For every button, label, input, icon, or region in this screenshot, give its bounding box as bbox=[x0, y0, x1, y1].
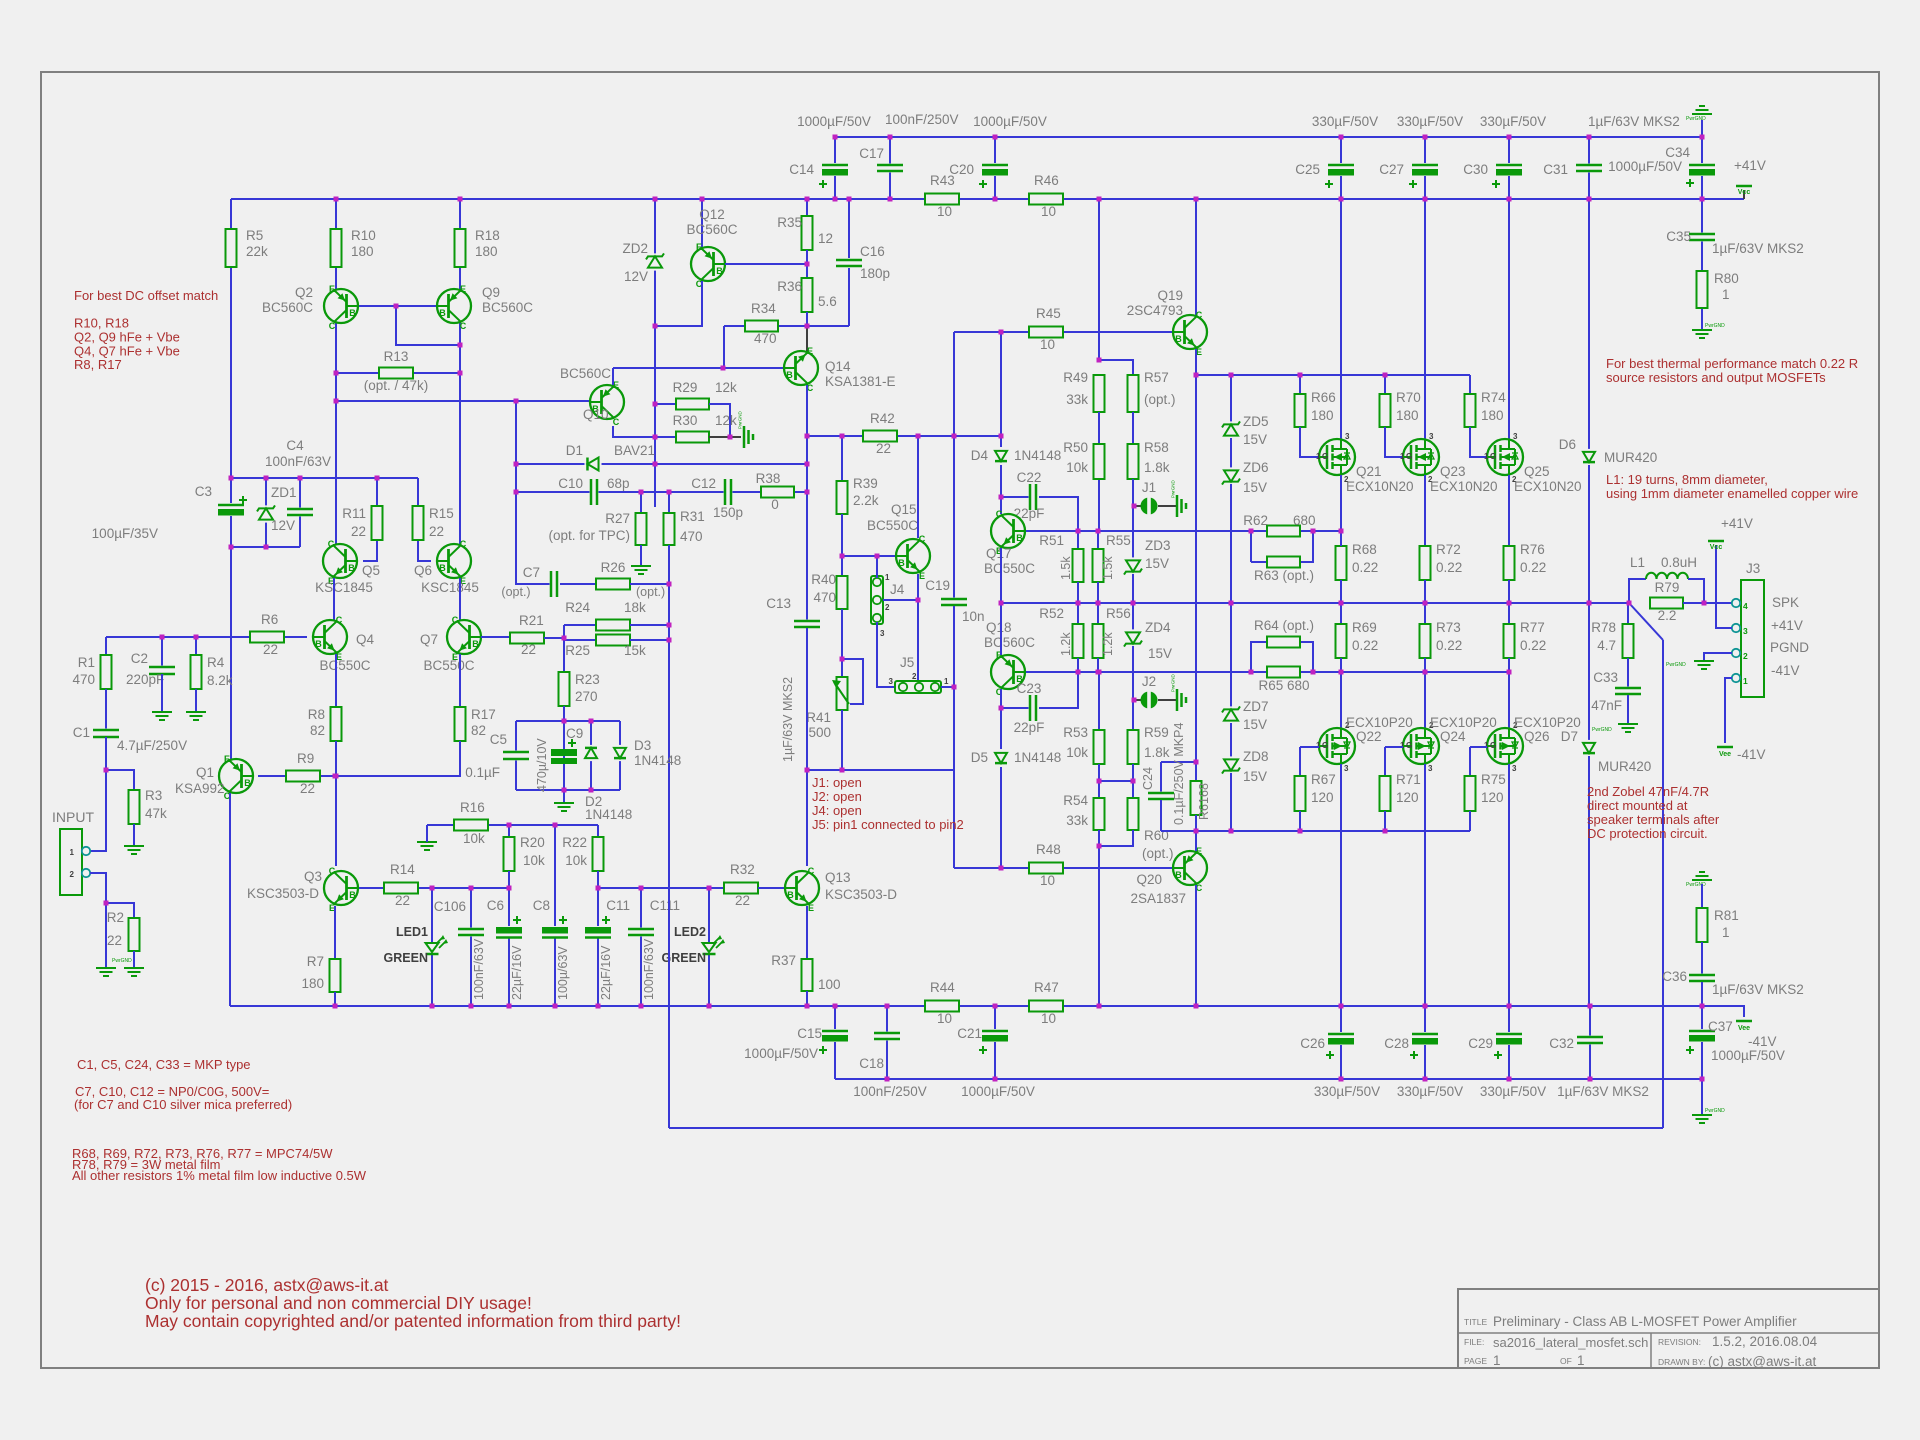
capacitor C16 bbox=[836, 259, 862, 268]
svg-text:470: 470 bbox=[813, 590, 836, 605]
junction at 471,1006 bbox=[469, 1004, 474, 1009]
zener ZD2 bbox=[646, 253, 664, 270]
wire Q21 source link bbox=[1340, 475, 1342, 546]
junction at 1509,1006 bbox=[1507, 1004, 1512, 1009]
svg-text:B: B bbox=[439, 308, 446, 318]
junction at 1341,1079 bbox=[1339, 1077, 1344, 1082]
wire R74 to gate bbox=[1470, 427, 1487, 457]
svg-text:1N4148: 1N4148 bbox=[634, 753, 681, 768]
wire Q7.E to R17 bbox=[459, 654, 461, 707]
svg-text:68: 68 bbox=[1197, 783, 1211, 797]
resistor R68 bbox=[1336, 546, 1347, 580]
capacitor C5 bbox=[503, 751, 529, 761]
wire Q14.E lead bbox=[806, 326, 808, 351]
svg-text:PwrGND: PwrGND bbox=[1705, 1108, 1725, 1114]
junction at 564,721 bbox=[562, 719, 567, 724]
wire R78 leads bbox=[1627, 603, 1629, 624]
title block bbox=[1458, 1289, 1879, 1368]
wire R34 line bbox=[724, 325, 745, 327]
resistor R25 bbox=[564, 639, 596, 641]
svg-text:4: 4 bbox=[1743, 601, 1748, 611]
svg-text:BC560C: BC560C bbox=[482, 300, 533, 315]
junction at 1425,1079 bbox=[1423, 1077, 1428, 1082]
svg-text:ZD2: ZD2 bbox=[622, 241, 648, 256]
wire J3 pin1 -41V bbox=[1725, 678, 1732, 743]
junction at 1098,531 bbox=[1096, 529, 1101, 534]
svg-text:C33: C33 bbox=[1593, 670, 1618, 685]
wire R56 leads bbox=[1097, 603, 1099, 624]
junction at 1589,137 bbox=[1587, 135, 1592, 140]
svg-text:R21: R21 bbox=[519, 613, 544, 628]
junction at 1231,375 bbox=[1229, 373, 1234, 378]
wire R42 line bbox=[807, 435, 863, 437]
wire Q10.E corner bbox=[612, 368, 614, 385]
junction at 1425,1006 bbox=[1423, 1004, 1428, 1009]
svg-text:1.2k: 1.2k bbox=[1101, 632, 1115, 656]
junction at 555,825 bbox=[553, 823, 558, 828]
junction at 669,584 bbox=[667, 582, 672, 587]
capacitor C26 bbox=[1328, 1032, 1354, 1045]
ground below input pin2 bbox=[96, 968, 116, 976]
svg-text:J4: open: J4: open bbox=[812, 803, 862, 818]
junction at 807,264 bbox=[805, 262, 810, 267]
junction at 641,888 bbox=[639, 886, 644, 891]
wire R53/R59 bottom link bbox=[1098, 764, 1100, 781]
svg-text:DRAWN BY:: DRAWN BY: bbox=[1658, 1357, 1705, 1367]
svg-text:Q15: Q15 bbox=[891, 502, 917, 517]
resistor R67 bbox=[1295, 776, 1306, 811]
svg-text:C: C bbox=[452, 615, 459, 625]
svg-text:ZD3: ZD3 bbox=[1145, 538, 1171, 553]
wire R51 leads bbox=[1077, 531, 1079, 549]
svg-text:KSC3503-D: KSC3503-D bbox=[247, 886, 319, 901]
svg-text:0.22: 0.22 bbox=[1436, 560, 1462, 575]
svg-text:+41V: +41V bbox=[1771, 618, 1803, 633]
wire R76 to output rail bbox=[1508, 580, 1510, 603]
svg-text:1000µF/50V: 1000µF/50V bbox=[744, 1046, 818, 1061]
svg-text:E: E bbox=[329, 284, 335, 294]
junction at 1509,1079 bbox=[1507, 1077, 1512, 1082]
svg-text:B: B bbox=[315, 639, 322, 649]
svg-text:MUR420: MUR420 bbox=[1598, 759, 1651, 774]
wire R27 leads bbox=[640, 492, 642, 513]
svg-text:R16: R16 bbox=[460, 800, 485, 815]
svg-text:4.7µF/250V: 4.7µF/250V bbox=[117, 738, 187, 753]
junction at 1589,199 bbox=[1587, 197, 1592, 202]
wire R17 down bbox=[335, 741, 460, 776]
junction at 300,478 bbox=[298, 476, 303, 481]
svg-text:D5: D5 bbox=[971, 750, 988, 765]
svg-text:FILE:: FILE: bbox=[1464, 1337, 1484, 1347]
diode D6 bbox=[1582, 449, 1596, 465]
resistor R38 bbox=[761, 487, 794, 498]
wire J2 to R59 bbox=[1132, 700, 1134, 730]
svg-text:L1: 19 turns, 8mm diameter,: L1: 19 turns, 8mm diameter, bbox=[1606, 472, 1768, 487]
wire Q15.C lead bbox=[917, 436, 919, 538]
junction at 1589,603 bbox=[1587, 601, 1592, 606]
wire R54 to rail bbox=[1098, 846, 1100, 1006]
wire Q15.E / J5 pin2 bbox=[917, 600, 919, 681]
svg-text:L1: L1 bbox=[1630, 555, 1645, 570]
junction at 1134,700 bbox=[1132, 698, 1137, 703]
wire R35-R36 bbox=[806, 250, 808, 278]
wire Q1.C column bbox=[229, 793, 231, 1006]
wire R58 to J1 bbox=[1132, 479, 1134, 506]
svg-text:22: 22 bbox=[521, 642, 536, 657]
svg-text:C13: C13 bbox=[766, 596, 791, 611]
svg-text:C3: C3 bbox=[195, 484, 212, 499]
svg-text:R36: R36 bbox=[777, 279, 802, 294]
resistor R53 bbox=[1098, 672, 1100, 730]
wire R21 line bbox=[481, 637, 510, 638]
capacitor C1 bbox=[93, 729, 119, 739]
svg-text:Q25: Q25 bbox=[1524, 464, 1550, 479]
junction at 377,478 bbox=[375, 476, 380, 481]
wire J1 to ZD3 bbox=[1132, 506, 1134, 558]
svg-text:10: 10 bbox=[937, 204, 952, 219]
svg-text:Q1: Q1 bbox=[196, 765, 214, 780]
capacitor C35 bbox=[1689, 233, 1715, 242]
wire D1 line bbox=[516, 463, 806, 465]
svg-text:R79: R79 bbox=[1655, 580, 1680, 595]
wire R41 wiper loop bbox=[842, 659, 863, 704]
svg-text:PGND: PGND bbox=[1770, 640, 1809, 655]
wire R65 line bbox=[1251, 671, 1267, 673]
resistor R31 bbox=[664, 513, 675, 545]
junction at 516,401 bbox=[514, 399, 519, 404]
svg-text:R3: R3 bbox=[145, 788, 162, 803]
svg-text:10: 10 bbox=[1040, 873, 1055, 888]
wire +41V rail bbox=[231, 198, 925, 200]
svg-text:C111: C111 bbox=[650, 898, 680, 913]
junction at 1001,708 bbox=[999, 706, 1004, 711]
svg-text:J5: J5 bbox=[900, 655, 914, 670]
wire C33 ground lead bbox=[1627, 695, 1629, 724]
svg-text:C11: C11 bbox=[606, 898, 630, 913]
svg-text:1000µF/50V: 1000µF/50V bbox=[1608, 159, 1682, 174]
wire R64 links bbox=[1251, 642, 1267, 672]
svg-text:G: G bbox=[1322, 741, 1328, 750]
junction at 1099,360 bbox=[1097, 358, 1102, 363]
svg-text:1: 1 bbox=[1484, 741, 1489, 750]
svg-text:22: 22 bbox=[429, 524, 444, 539]
svg-text:120: 120 bbox=[1481, 790, 1504, 805]
svg-text:1: 1 bbox=[1484, 452, 1489, 461]
wire lower gate rail bbox=[1161, 830, 1470, 832]
resistor R5 bbox=[226, 229, 237, 267]
svg-text:10: 10 bbox=[1041, 204, 1056, 219]
wire bottom cap bus bbox=[835, 1078, 1702, 1080]
wire D6 column bbox=[1588, 199, 1590, 449]
wire R70 to gate bbox=[1385, 427, 1403, 457]
junction at 106,903 bbox=[104, 901, 109, 906]
wire Q2-Q9 base link bbox=[358, 305, 437, 307]
svg-text:R30: R30 bbox=[673, 413, 698, 428]
svg-text:10k: 10k bbox=[523, 853, 545, 868]
svg-text:ECX10N20: ECX10N20 bbox=[1430, 479, 1498, 494]
wire ZD7 leads bbox=[1230, 603, 1232, 707]
wire LED1 leads bbox=[431, 888, 433, 943]
wire R54/R60 bottom link bbox=[1099, 830, 1133, 846]
ground PwrGND bottom right bbox=[1692, 1115, 1712, 1123]
svg-text:ECX10N20: ECX10N20 bbox=[1514, 479, 1582, 494]
svg-text:REVISION:: REVISION: bbox=[1658, 1337, 1701, 1347]
svg-text:68p: 68p bbox=[607, 476, 630, 491]
junction at 1133,781 bbox=[1131, 779, 1136, 784]
svg-text:KSC3503-D: KSC3503-D bbox=[825, 887, 897, 902]
svg-text:C23: C23 bbox=[1017, 681, 1042, 696]
svg-text:10: 10 bbox=[1040, 337, 1055, 352]
wire R71 to lower gate rail bbox=[1384, 811, 1386, 831]
junction at 1231,831 bbox=[1229, 829, 1234, 834]
svg-text:C25: C25 bbox=[1295, 162, 1320, 177]
svg-text:B: B bbox=[1175, 870, 1182, 880]
svg-text:B: B bbox=[349, 890, 356, 900]
transistor Q5 bbox=[323, 544, 357, 578]
junction at 336,776 bbox=[334, 774, 339, 779]
wire ZD5 leads bbox=[1230, 375, 1232, 422]
svg-text:33k: 33k bbox=[1066, 392, 1088, 407]
svg-text:J1: open: J1: open bbox=[812, 775, 862, 790]
svg-text:C37: C37 bbox=[1708, 1019, 1733, 1034]
svg-text:ZD5: ZD5 bbox=[1243, 414, 1269, 429]
svg-text:1.2k: 1.2k bbox=[1059, 632, 1073, 656]
junction at 835,137 bbox=[833, 135, 838, 140]
svg-text:For best thermal performance m: For best thermal performance match 0.22 … bbox=[1606, 356, 1858, 371]
svg-text:DC protection circuit.: DC protection circuit. bbox=[1587, 826, 1708, 841]
junction at 835,1006 bbox=[833, 1004, 838, 1009]
wire R2 ground lead bbox=[133, 951, 135, 968]
svg-text:180: 180 bbox=[1311, 408, 1334, 423]
resistor R81 bbox=[1697, 908, 1708, 942]
svg-text:3: 3 bbox=[880, 629, 885, 638]
svg-text:R39: R39 bbox=[853, 476, 878, 491]
ground below C9 bus bbox=[563, 790, 565, 803]
wire C18 leads bbox=[886, 1006, 888, 1079]
junction at 335,776 bbox=[333, 774, 338, 779]
wire output down column bbox=[1662, 640, 1664, 1128]
svg-text:R8, R17: R8, R17 bbox=[74, 357, 122, 372]
svg-text:TITLE: TITLE bbox=[1464, 1317, 1487, 1327]
ground PwrGND top right bbox=[1692, 106, 1712, 114]
svg-text:Q17: Q17 bbox=[986, 546, 1012, 561]
svg-text:15V: 15V bbox=[1243, 769, 1267, 784]
wire R70 leads bbox=[1384, 375, 1386, 394]
junction at 877,556 bbox=[875, 554, 880, 559]
ground PwrGND above R81 bbox=[1692, 872, 1712, 880]
junction at 509,1006 bbox=[507, 1004, 512, 1009]
svg-text:ZD8: ZD8 bbox=[1243, 749, 1269, 764]
wire R1 to C1 bbox=[105, 689, 107, 730]
wire R72 to output rail bbox=[1424, 580, 1426, 603]
junction at 516,464 bbox=[514, 462, 519, 467]
svg-text:1000µF/50V: 1000µF/50V bbox=[1711, 1048, 1785, 1063]
svg-text:15V: 15V bbox=[1243, 432, 1267, 447]
svg-text:10k: 10k bbox=[565, 853, 587, 868]
svg-text:2nd Zobel 47nF/4.7R: 2nd Zobel 47nF/4.7R bbox=[1587, 784, 1709, 799]
svg-text:C36: C36 bbox=[1662, 969, 1687, 984]
capacitor C28 bbox=[1412, 1032, 1438, 1045]
wire C2 leads bbox=[161, 637, 163, 667]
capacitor C34 bbox=[1689, 163, 1715, 176]
svg-text:Q2, Q9 hFe + Vbe: Q2, Q9 hFe + Vbe bbox=[74, 330, 180, 345]
svg-text:100nF/250V: 100nF/250V bbox=[853, 1084, 927, 1099]
resistor R23 bbox=[559, 672, 570, 706]
svg-text:1: 1 bbox=[1316, 452, 1321, 461]
resistor R52 bbox=[1073, 624, 1084, 658]
MOSFET Q26 ECX10P20 bbox=[1487, 728, 1523, 764]
svg-text:R8: R8 bbox=[308, 707, 325, 722]
svg-text:120: 120 bbox=[1311, 790, 1334, 805]
resistor R80 bbox=[1697, 271, 1708, 308]
resistor R47 bbox=[1029, 1001, 1063, 1012]
transistor Q1 bbox=[219, 759, 253, 793]
capacitor C22 bbox=[1029, 484, 1038, 510]
resistor R42 bbox=[863, 431, 897, 442]
wire J4 pin3 to J5 pin3 bbox=[877, 622, 899, 687]
svg-text:R48: R48 bbox=[1036, 842, 1061, 857]
wire Q19.C lead bbox=[1195, 199, 1197, 315]
svg-text:1: 1 bbox=[1577, 1353, 1585, 1368]
svg-text:15V: 15V bbox=[1145, 556, 1169, 571]
wire C28 bottom bbox=[1424, 1045, 1426, 1079]
resistor R4 bbox=[191, 655, 202, 689]
svg-text:C35: C35 bbox=[1666, 229, 1691, 244]
capacitor C33 bbox=[1615, 687, 1641, 696]
svg-text:ZD4: ZD4 bbox=[1145, 620, 1171, 635]
junction at 1385,375 bbox=[1383, 373, 1388, 378]
svg-text:10k: 10k bbox=[1066, 460, 1088, 475]
svg-text:Q24: Q24 bbox=[1440, 729, 1466, 744]
wire Q18 base line bbox=[1026, 671, 1251, 673]
svg-text:22pF: 22pF bbox=[1014, 720, 1045, 735]
wire R63 links bbox=[1250, 531, 1252, 562]
svg-text:22: 22 bbox=[351, 524, 366, 539]
wire C32 leads bbox=[1589, 1006, 1591, 1079]
junction at 1509,137 bbox=[1507, 135, 1512, 140]
wire J5 pin1 lead bbox=[941, 686, 954, 688]
wire R54 leads bbox=[1098, 781, 1100, 798]
wire C14 leads bbox=[834, 137, 836, 199]
svg-text:B: B bbox=[898, 558, 905, 568]
svg-text:D6: D6 bbox=[1559, 437, 1576, 452]
wire R55 bottom bbox=[1097, 582, 1099, 603]
junction at 1001,868 bbox=[999, 866, 1004, 871]
svg-text:330µF/50V: 330µF/50V bbox=[1314, 1084, 1380, 1099]
junction at 1341,137 bbox=[1339, 135, 1344, 140]
svg-text:D3: D3 bbox=[634, 738, 651, 753]
junction at 196,637 bbox=[194, 635, 199, 640]
junction at 807,464 bbox=[805, 462, 810, 467]
svg-text:PwrGND: PwrGND bbox=[1705, 323, 1725, 329]
svg-text:3: 3 bbox=[1345, 432, 1350, 441]
wire C26 bottom bbox=[1340, 1045, 1342, 1079]
wire R62 line bbox=[1251, 530, 1267, 532]
ground PwrGND J3 pin2 bbox=[1694, 661, 1714, 669]
svg-text:C: C bbox=[808, 866, 815, 876]
resistor R59 bbox=[1128, 730, 1139, 764]
connector J5 bbox=[895, 681, 941, 693]
svg-text:BC560C: BC560C bbox=[262, 300, 313, 315]
svg-text:C30: C30 bbox=[1463, 162, 1488, 177]
svg-text:PwrGND: PwrGND bbox=[1686, 882, 1706, 888]
capacitor C4 bbox=[287, 508, 313, 517]
wire ZD4 lead bbox=[1132, 603, 1134, 630]
svg-text:R64 (opt.): R64 (opt.) bbox=[1254, 618, 1314, 633]
svg-text:10: 10 bbox=[1041, 1011, 1056, 1026]
svg-text:B: B bbox=[786, 370, 793, 380]
svg-text:G: G bbox=[1322, 452, 1328, 461]
resistor R49 bbox=[1094, 375, 1105, 412]
svg-text:R69: R69 bbox=[1352, 620, 1377, 635]
wire Q14.C column (VAS node) bbox=[806, 385, 808, 619]
svg-text:E: E bbox=[919, 571, 925, 581]
svg-text:C18: C18 bbox=[859, 1056, 884, 1071]
capacitor C13 bbox=[794, 620, 820, 629]
transistor Q9 bbox=[437, 289, 471, 323]
svg-text:0: 0 bbox=[771, 497, 779, 512]
capacitor C2 bbox=[149, 666, 175, 676]
wire C19 bottom bbox=[953, 606, 955, 868]
capacitor C18 bbox=[874, 1032, 900, 1041]
wire R51 bottom bbox=[1077, 582, 1079, 603]
wire top ground bus bbox=[835, 136, 1702, 138]
svg-text:180: 180 bbox=[1396, 408, 1419, 423]
wire Q23 source to R72 bbox=[1424, 475, 1426, 546]
resistor R75 bbox=[1465, 776, 1476, 811]
wire Q25 source to R76 bbox=[1508, 475, 1510, 546]
svg-text:R76: R76 bbox=[1520, 542, 1545, 557]
svg-text:R42: R42 bbox=[870, 411, 895, 426]
resistor R64 bbox=[1267, 637, 1300, 648]
junction at 655,464 bbox=[653, 462, 658, 467]
svg-text:C: C bbox=[328, 539, 335, 549]
svg-text:1.5k: 1.5k bbox=[1101, 556, 1115, 580]
junction at 516,492 bbox=[514, 490, 519, 495]
svg-text:GREEN: GREEN bbox=[384, 951, 428, 965]
svg-text:PwrGND: PwrGND bbox=[1171, 480, 1176, 498]
junction at 336,373 bbox=[334, 371, 339, 376]
power +41V Vcc top right bbox=[1736, 185, 1752, 188]
svg-text:10k: 10k bbox=[463, 831, 485, 846]
junction at 655,199 bbox=[653, 197, 658, 202]
ground PwrGND below R2 bbox=[124, 968, 144, 976]
junction at 807,770 bbox=[805, 768, 810, 773]
svg-text:R81: R81 bbox=[1714, 908, 1739, 923]
LED LED2 bbox=[703, 943, 716, 952]
svg-text:1: 1 bbox=[885, 573, 890, 582]
wire C7-R26 bbox=[560, 583, 596, 585]
resistor R78 bbox=[1623, 624, 1634, 658]
wire upper gate rail bbox=[1196, 374, 1470, 376]
wire R29/R30 left column bbox=[654, 404, 656, 437]
junction at 1099,199 bbox=[1097, 197, 1102, 202]
wire ZD2 column bbox=[654, 199, 656, 507]
capacitor C31 bbox=[1576, 164, 1602, 173]
svg-text:C31: C31 bbox=[1543, 162, 1568, 177]
svg-text:3: 3 bbox=[1429, 432, 1434, 441]
svg-text:R32: R32 bbox=[730, 862, 755, 877]
svg-text:Q21: Q21 bbox=[1356, 464, 1382, 479]
svg-text:R26: R26 bbox=[601, 560, 626, 575]
svg-text:1: 1 bbox=[70, 848, 75, 857]
svg-text:150p: 150p bbox=[713, 505, 743, 520]
svg-text:330µF/50V: 330µF/50V bbox=[1312, 114, 1378, 129]
junction at 598,1006 bbox=[596, 1004, 601, 1009]
wire R31 leads bbox=[668, 492, 670, 513]
wire C30 leads bbox=[1508, 137, 1510, 199]
svg-text:0.22: 0.22 bbox=[1352, 638, 1378, 653]
